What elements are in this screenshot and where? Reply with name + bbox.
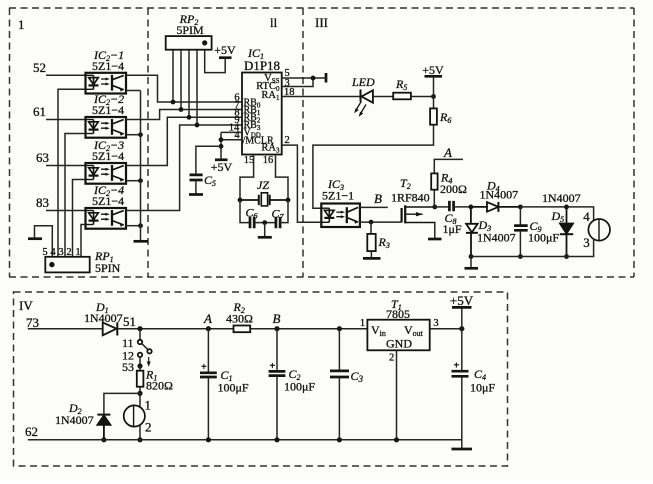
junction C3 top	[337, 326, 342, 331]
diode D5	[560, 207, 573, 257]
junction RB2/RP2	[187, 115, 192, 120]
wire IC2-4 collector to RB3	[126, 125, 242, 211]
wire IC2-4 cathode to RP1 pin1	[81, 225, 86, 257]
border top dashed	[9, 7, 634, 9]
border bottom dashed	[9, 276, 634, 278]
junction R5/R6/+5V	[431, 94, 436, 99]
wire input 61	[46, 119, 86, 121]
wire R3 top	[370, 222, 372, 234]
optocoupler IC2-2	[86, 117, 127, 138]
wire C9 bottom	[519, 230, 521, 256]
resistor R2	[234, 326, 251, 333]
wire top rail to D5	[520, 206, 566, 208]
resistor network RP2	[166, 36, 212, 50]
junction C9 bottom	[518, 254, 523, 259]
wire C1 bottom	[207, 377, 209, 440]
wire switch top	[139, 329, 141, 340]
junction R1 bottom	[137, 391, 142, 396]
wire pin15 to crystal	[240, 155, 254, 201]
svg-text:+: +	[201, 362, 207, 373]
LED D7	[361, 89, 373, 102]
ground IV	[452, 448, 473, 451]
junction RB0/RP2	[171, 100, 176, 105]
wire C5 bottom	[195, 180, 197, 194]
svg-text:C6: C6	[246, 206, 258, 221]
capacitor C5	[190, 175, 203, 180]
svg-text:/MCLR: /MCLR	[243, 136, 274, 147]
junction C3 bottom	[337, 437, 342, 442]
svg-text:53: 53	[122, 360, 134, 374]
junction D5 top	[564, 205, 569, 210]
svg-text:IV: IV	[19, 298, 33, 313]
ground C5	[189, 193, 203, 196]
svg-text:63: 63	[36, 150, 49, 165]
switch blade contact	[147, 349, 151, 353]
terminal stub Vss	[325, 73, 328, 83]
wire pin18 RA1 to LED	[282, 96, 361, 98]
junction D3 bottom	[469, 254, 474, 259]
wire C7 to crystal right	[280, 200, 288, 223]
wire ground stub III	[470, 257, 472, 268]
svg-text:A: A	[443, 145, 452, 160]
optocoupler IC2-4	[86, 208, 127, 229]
svg-text:83: 83	[36, 195, 49, 210]
ground R3	[363, 257, 381, 260]
junction RB3/RP2	[195, 123, 200, 128]
svg-text:1: 1	[145, 398, 152, 413]
wire bottom rail IV	[28, 439, 462, 441]
optocoupler IC2-3	[86, 163, 127, 184]
wire IC3 collector stub node B	[360, 206, 388, 208]
svg-text:5: 5	[42, 247, 47, 258]
wire input 73	[28, 328, 103, 330]
wire C3 bottom	[338, 377, 340, 440]
svg-text:100μF: 100μF	[284, 380, 315, 394]
ground RP1	[28, 237, 42, 240]
ground emitter rail	[134, 240, 149, 243]
capacitor C9	[514, 226, 528, 231]
+5V terminal IV	[452, 306, 472, 309]
wire input 52	[46, 74, 86, 76]
svg-text:3: 3	[58, 247, 63, 258]
svg-text:15: 15	[244, 155, 255, 166]
svg-text:1RF840: 1RF840	[391, 191, 430, 205]
wire +5V column	[220, 132, 222, 159]
capacitor C6	[250, 217, 254, 228]
svg-text:GND: GND	[386, 337, 412, 351]
svg-text:R6: R6	[439, 110, 451, 125]
ground crystal	[258, 236, 272, 239]
capacitor C4	[452, 371, 469, 376]
wire C4 top	[461, 329, 463, 371]
svg-text:1μF: 1μF	[443, 222, 462, 236]
crystal JZ	[240, 193, 288, 206]
wire IC2-2 collector to RB1	[126, 110, 242, 120]
wire R6 to IC3 anode	[313, 125, 434, 209]
RP1 pin1 dot	[49, 262, 54, 267]
svg-text:4: 4	[50, 247, 56, 258]
LED arrows	[354, 101, 366, 117]
capacitor C1	[200, 373, 217, 377]
wire 53 to R1	[139, 366, 141, 371]
wire R1 bottom	[139, 387, 141, 394]
svg-text:5Z1−4: 5Z1−4	[92, 194, 124, 208]
wire IC2-2 cathode to RP1 pin3	[65, 134, 86, 257]
svg-text:100μF: 100μF	[218, 381, 249, 395]
junction D5 bottom	[564, 254, 569, 259]
svg-text:1N4007: 1N4007	[542, 191, 581, 205]
svg-text:R5: R5	[395, 77, 407, 92]
svg-text:2: 2	[389, 353, 394, 364]
svg-text:D5: D5	[551, 209, 565, 224]
wire IC2-3 collector to RB2	[126, 117, 242, 165]
border box II left dashed	[147, 8, 149, 277]
wire RP2 pin3 to RB2	[188, 50, 190, 118]
RP2 pin dot	[202, 40, 207, 45]
wire RP2 pin1 to RB0	[172, 50, 174, 102]
wire to D2	[104, 393, 140, 414]
svg-text:200Ω: 200Ω	[440, 182, 467, 196]
svg-text:820Ω: 820Ω	[146, 379, 173, 393]
wire C9 top	[519, 207, 521, 226]
svg-text:52: 52	[33, 60, 46, 75]
capacitor C7	[276, 217, 280, 228]
junction emitter rail IC2-2	[138, 132, 143, 137]
wire VDD row	[221, 131, 242, 133]
wire connector bottom	[471, 239, 594, 257]
border box II/III separator dashed	[302, 8, 304, 277]
junction C5/+5V	[219, 144, 224, 149]
svg-text:B: B	[273, 311, 281, 326]
resistor R5	[393, 93, 411, 100]
svg-text:61: 61	[33, 104, 46, 119]
svg-text:5Z1−1: 5Z1−1	[322, 189, 354, 203]
wire main top rail IV	[117, 328, 367, 330]
svg-text:62: 62	[25, 424, 38, 439]
svg-text:100μF: 100μF	[528, 231, 559, 245]
wire C2 bottom	[276, 376, 278, 440]
wire R3 bottom	[370, 251, 372, 258]
svg-text:+5V: +5V	[214, 43, 236, 57]
svg-text:4: 4	[583, 209, 590, 224]
svg-text:10μF: 10μF	[470, 381, 495, 395]
wire C3 column	[338, 329, 340, 371]
diode D1	[103, 322, 118, 335]
wire pin16 to crystal	[276, 155, 289, 201]
wire MCLR row	[221, 139, 242, 141]
wire C5 top	[196, 146, 221, 174]
junction Vss/RTC0	[311, 76, 316, 81]
resistor R1	[137, 371, 144, 387]
junction C9 top	[518, 205, 523, 210]
resistor R3	[367, 234, 375, 251]
wire IC3 emitter to T2 gate	[360, 221, 402, 223]
svg-text:1N4007: 1N4007	[477, 231, 516, 245]
capacitor C8	[449, 201, 453, 211]
wire IC2-1 collector to RB0	[126, 75, 242, 102]
+5V terminal RP2	[219, 56, 232, 59]
wire input 63	[46, 165, 86, 167]
junction MCLR/+5V	[219, 137, 224, 142]
+5V terminal III	[425, 75, 443, 78]
junction switch 51	[137, 326, 142, 331]
wire R4 bottom	[433, 190, 435, 207]
wire +5V stub	[433, 77, 435, 97]
junction emitter rail IC2-3	[138, 178, 143, 183]
resistor network RP1	[45, 257, 89, 273]
switch node 53 dot	[137, 363, 142, 368]
wire RP2 pin2 to RB1	[180, 50, 182, 110]
capacitor C3	[330, 371, 349, 377]
resistor R4	[431, 173, 437, 189]
svg-text:5PIN: 5PIN	[95, 261, 121, 275]
svg-text:1N4007: 1N4007	[480, 188, 519, 202]
wire connector IV bottom	[139, 424, 141, 439]
wire C2 column	[276, 329, 278, 372]
junction D3/D4	[469, 205, 474, 210]
svg-text:C3: C3	[351, 369, 364, 384]
connector plug IV	[124, 405, 145, 426]
wire connector IV top	[139, 393, 141, 407]
wire ground stub IV	[461, 440, 463, 449]
svg-text:T2: T2	[400, 176, 411, 191]
wire T1 output	[430, 328, 462, 330]
wire switch 12 to 53	[139, 357, 141, 366]
svg-text:D1P18: D1P18	[244, 58, 280, 73]
regulator T1 7805	[367, 320, 429, 351]
transistor T2 IRF840	[402, 205, 435, 238]
switch blade arrow	[147, 357, 151, 367]
switch contact 11	[138, 340, 142, 344]
border box IV dashed	[14, 292, 508, 466]
wire IC2-3 cathode to RP1 pin2	[73, 180, 86, 257]
svg-text:1N4007: 1N4007	[55, 413, 94, 427]
svg-text:B: B	[374, 191, 382, 206]
svg-text:III: III	[315, 15, 328, 30]
border left dashed	[9, 8, 11, 277]
svg-text:5Z1−4: 5Z1−4	[92, 149, 124, 163]
optocoupler IC3	[321, 204, 360, 228]
svg-text:1: 1	[75, 247, 80, 258]
junction +5V C4	[459, 326, 464, 331]
wire IC2-1 cathode to RP1 pin4	[58, 89, 86, 256]
svg-text:5Z1−4: 5Z1−4	[92, 59, 124, 73]
svg-text:+5V: +5V	[422, 63, 444, 77]
svg-text:C5: C5	[204, 173, 216, 188]
ground III	[465, 267, 479, 270]
diode D2	[97, 415, 110, 440]
svg-text:5Z1−4: 5Z1−4	[92, 103, 124, 117]
wire input 83	[46, 210, 86, 212]
wire C8 to D4 node	[454, 206, 471, 208]
optocoupler IC2-1	[86, 73, 127, 94]
junction T2 drain	[432, 205, 437, 210]
svg-text:+5V: +5V	[211, 160, 233, 174]
svg-text:+5V: +5V	[450, 293, 474, 308]
ground T2 source	[428, 238, 442, 241]
wire pin3 RTC0	[282, 78, 313, 87]
wire R5 to +5V node	[411, 96, 434, 98]
junction connector bottom	[137, 437, 142, 442]
wire C1 column	[207, 329, 209, 373]
svg-text:16: 16	[263, 155, 274, 166]
wire +5V stub IV	[461, 308, 463, 329]
wire C6 to C7	[254, 222, 276, 224]
switch contact 12	[138, 353, 142, 357]
wire RP2 pin5 to +5V	[205, 50, 226, 73]
connector plug III	[588, 219, 610, 241]
wire emitter rail	[140, 91, 142, 242]
wire T1 GND	[396, 350, 398, 440]
junction T1 GND bottom	[394, 437, 399, 442]
wire IC2-3 emitter to rail	[126, 180, 141, 182]
svg-text:2: 2	[66, 247, 71, 258]
svg-text:R3: R3	[378, 235, 390, 250]
wire pin2 RA3 to IC3 cathode	[282, 145, 322, 222]
svg-text:3: 3	[583, 235, 590, 250]
svg-text:1: 1	[360, 318, 365, 329]
wire IC2-2 emitter to rail	[126, 134, 141, 136]
junction R3	[369, 220, 374, 225]
svg-text:51: 51	[123, 314, 136, 329]
svg-text:A: A	[203, 311, 212, 326]
wire R4 top to node A	[434, 159, 463, 173]
svg-text:7805: 7805	[386, 307, 410, 321]
wire to R6	[433, 97, 435, 109]
junction RB1/RP2	[179, 107, 184, 112]
switch blade	[142, 344, 148, 350]
svg-text:C7: C7	[272, 207, 285, 222]
junction C1 bottom	[206, 437, 211, 442]
svg-text:LED: LED	[351, 75, 375, 89]
wire pin5 Vss	[282, 77, 326, 79]
junction C2 bottom	[274, 437, 279, 442]
wire RP1 pin5 to ground	[35, 226, 53, 257]
junction emitter rail IC2-4	[138, 223, 143, 228]
wire IC2-1 emitter to rail	[126, 90, 141, 92]
junction node B	[274, 326, 279, 331]
svg-text:1: 1	[18, 17, 25, 32]
capacitor C2	[269, 371, 286, 375]
svg-text:2: 2	[145, 420, 152, 435]
svg-text:ll: ll	[270, 15, 278, 30]
svg-text:430Ω: 430Ω	[226, 312, 253, 326]
svg-text:5PIM: 5PIM	[176, 23, 204, 37]
svg-text:JZ: JZ	[257, 178, 269, 192]
svg-text:3: 3	[433, 318, 438, 329]
wire crystal left to C6	[240, 200, 250, 223]
junction node A	[206, 326, 211, 331]
+5V terminal C5	[215, 158, 228, 161]
wire IC2-4 emitter to rail	[126, 225, 141, 227]
junction D2 bottom	[101, 437, 106, 442]
IC U1 D1P18	[242, 73, 282, 155]
wire C4 bottom	[461, 377, 463, 440]
wire RP2 pin4 to RB3	[196, 50, 198, 125]
junction crystal right	[286, 198, 291, 203]
diode D3	[466, 207, 478, 257]
border right dashed	[633, 8, 635, 277]
wire LED to R5	[373, 96, 393, 98]
svg-text:73: 73	[26, 315, 39, 330]
wire top rail to connector	[567, 207, 594, 221]
diode D4	[471, 202, 521, 212]
resistor R6	[430, 108, 437, 124]
junction crystal left	[238, 198, 243, 203]
junction C6/C7 ground	[262, 220, 267, 225]
wire drain to C8	[435, 206, 450, 208]
wire ground stub crystal	[264, 223, 266, 237]
